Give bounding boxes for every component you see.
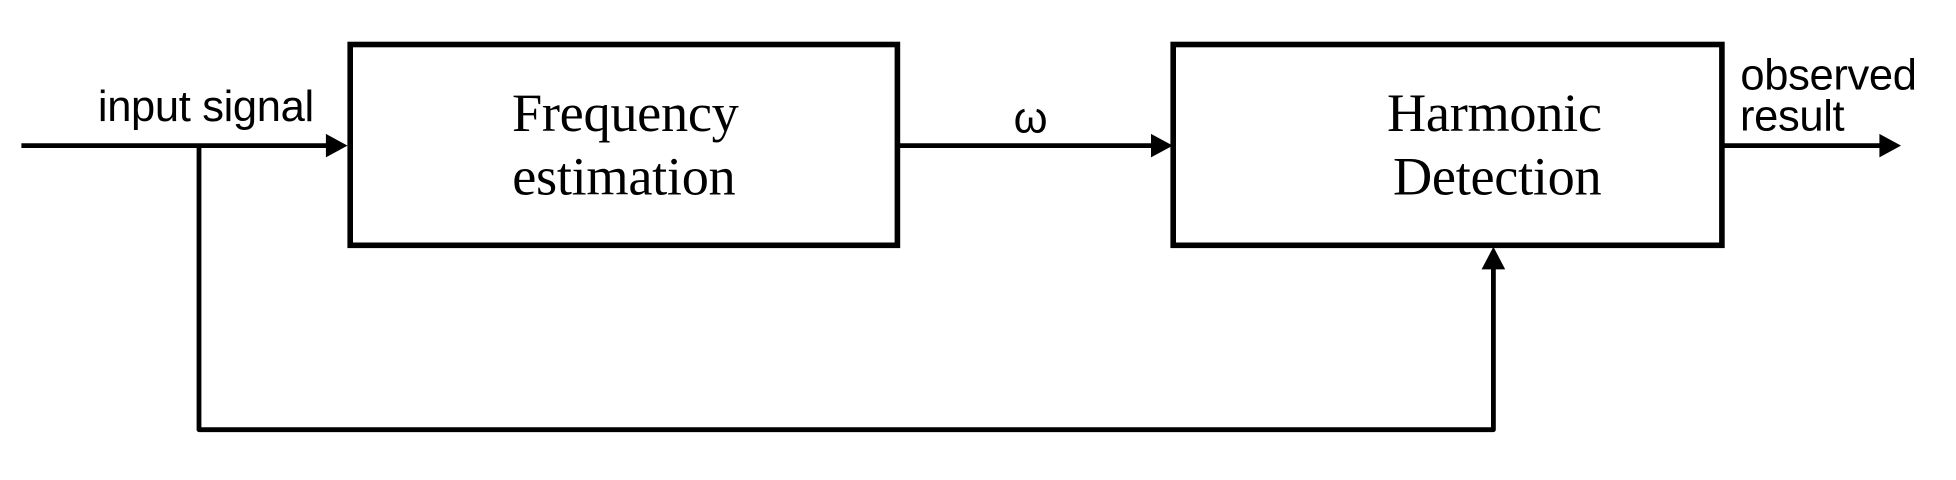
block: Harmonic Detection box xyxy=(1173,45,1722,246)
svg-text:Harmonic: Harmonic xyxy=(1387,83,1602,143)
svg-text:estimation: estimation xyxy=(512,146,735,206)
arrowhead up into Harmonic Detection box bottom xyxy=(1482,247,1506,270)
block: Frequency estimation box xyxy=(350,45,897,246)
svg-text:Frequency: Frequency xyxy=(512,83,739,143)
arrowhead into Frequency estimation box xyxy=(326,134,348,158)
svg-text:input signal: input signal xyxy=(98,83,314,131)
wire: output line xyxy=(1724,143,1880,148)
svg-text:result: result xyxy=(1740,92,1845,140)
svg-text:Detection: Detection xyxy=(1393,146,1602,206)
arrowhead into Harmonic Detection box xyxy=(1151,134,1173,158)
wire: input signal line xyxy=(21,143,327,148)
svg-text:ω: ω xyxy=(1014,95,1048,143)
wire: feedback down segment xyxy=(199,146,1493,430)
wire: omega arrow line xyxy=(900,143,1152,148)
arrowhead: observed result output xyxy=(1879,134,1901,158)
